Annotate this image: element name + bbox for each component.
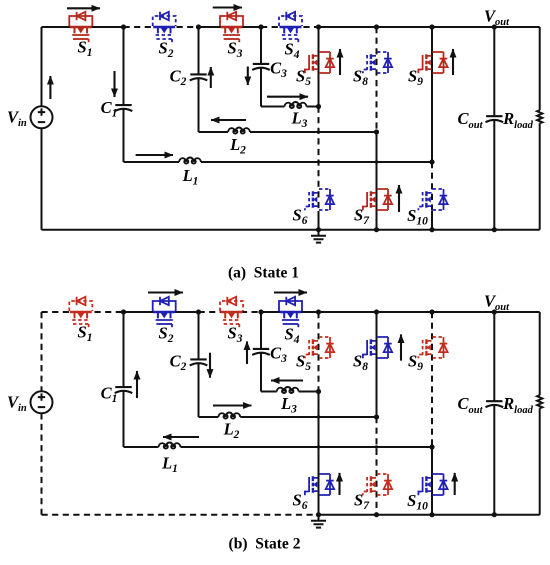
wire S9 rail bbox=[431, 27, 433, 162]
arrow L3 current bbox=[267, 96, 308, 98]
transistor S6 bbox=[305, 474, 334, 495]
svg-text:C1: C1 bbox=[101, 384, 118, 406]
capacitor C2 bbox=[190, 359, 208, 365]
svg-text:S7: S7 bbox=[354, 206, 370, 228]
junction L3-S5 node bbox=[316, 104, 321, 109]
junction dots top rail bbox=[121, 309, 126, 314]
junction L1-S9 node bbox=[429, 444, 434, 449]
junction L2-S7 node bbox=[374, 414, 379, 419]
transistor S6 bbox=[305, 189, 334, 210]
inductor L1 bbox=[179, 158, 201, 164]
wire top rail S2-S3 segment bbox=[199, 311, 262, 313]
arrow S1 current bbox=[67, 7, 100, 9]
svg-text:L2: L2 bbox=[229, 135, 246, 157]
wire S8 rail bbox=[376, 312, 378, 417]
wire Rload rail upper bbox=[539, 312, 541, 395]
arrow S7 current bbox=[398, 185, 400, 212]
transistor S4 bbox=[279, 12, 302, 42]
arrow C1 current bbox=[136, 371, 138, 398]
wire S10 rail bbox=[431, 447, 433, 515]
svg-text:Vout: Vout bbox=[484, 292, 510, 314]
junction dots top rail bbox=[121, 24, 126, 29]
arrow S4 current bbox=[274, 291, 307, 293]
wire C3 branch upper bbox=[260, 27, 262, 64]
svg-text:Rload: Rload bbox=[502, 394, 533, 416]
svg-text:L1: L1 bbox=[182, 166, 199, 188]
svg-text:S3: S3 bbox=[228, 39, 243, 61]
wire L3 branch left bbox=[261, 391, 277, 393]
capacitor Cout bbox=[486, 116, 504, 122]
ground bbox=[311, 230, 326, 243]
arrow S10 current bbox=[454, 473, 456, 495]
svg-text:L3: L3 bbox=[291, 109, 308, 131]
svg-text:S7: S7 bbox=[354, 491, 370, 513]
arrow L1 current bbox=[163, 436, 199, 438]
transistor S2 bbox=[153, 12, 176, 42]
wire top rail through S4 bbox=[261, 311, 319, 313]
junction L3-S5 node bbox=[316, 389, 321, 394]
arrow L3 current bbox=[271, 379, 303, 381]
wire S7 rail bbox=[376, 132, 378, 230]
wire C2 branch lower bbox=[198, 364, 200, 417]
transistor S1 bbox=[69, 297, 92, 327]
wire L1 branch right bbox=[181, 446, 433, 448]
svg-text:S4: S4 bbox=[285, 325, 300, 347]
capacitor Cout bbox=[486, 401, 504, 407]
transistor S1 bbox=[69, 12, 92, 42]
wire S6 rail bbox=[318, 392, 320, 515]
wire C3 branch lower bbox=[260, 353, 262, 391]
wire L3 branch right bbox=[299, 391, 319, 393]
arrow S8 current bbox=[400, 334, 402, 360]
wire C2 branch upper bbox=[198, 312, 200, 359]
arrow input current bbox=[49, 76, 51, 99]
wire top rail left segment bbox=[42, 311, 124, 313]
svg-text:(a) State 1: (a) State 1 bbox=[228, 265, 299, 282]
wire C1 branch upper bbox=[123, 312, 125, 387]
wire C2 branch upper bbox=[198, 27, 200, 74]
capacitor C1 bbox=[115, 387, 133, 393]
wire left rail upper bbox=[41, 312, 43, 391]
capacitor C2 bbox=[190, 74, 208, 80]
arrow C3 current bbox=[247, 67, 249, 86]
svg-text:C2: C2 bbox=[170, 67, 187, 89]
transistor S9 bbox=[418, 337, 447, 358]
wire S6 source stub bbox=[318, 211, 320, 230]
svg-text:Rload: Rload bbox=[502, 109, 533, 131]
wire C1 branch upper bbox=[123, 27, 125, 105]
transistor S8 bbox=[363, 337, 392, 358]
svg-text:S4: S4 bbox=[285, 40, 300, 62]
inductor L3 bbox=[277, 387, 299, 393]
wire S9 rail dead segment bbox=[431, 312, 433, 447]
wire bottom rail bbox=[319, 514, 540, 516]
junction crossing dots bbox=[317, 130, 320, 133]
wire Rload rail upper bbox=[539, 27, 541, 110]
wire Cout rail lower bbox=[493, 120, 495, 229]
svg-text:L2: L2 bbox=[223, 420, 240, 442]
wire S8 rail dead segment bbox=[376, 27, 378, 132]
arrow C3 current bbox=[246, 341, 248, 364]
capacitor C1 bbox=[115, 105, 133, 111]
wire C3 branch upper bbox=[260, 312, 262, 349]
resistor Rload bbox=[537, 110, 542, 123]
wire S5-S6 rail dead segment bbox=[318, 107, 320, 212]
wire left rail lower bbox=[41, 128, 43, 229]
junction L2-S7 node bbox=[374, 129, 379, 134]
wire L1 branch left bbox=[124, 161, 180, 163]
wire left rail upper bbox=[41, 27, 43, 106]
arrow C2 current bbox=[210, 67, 212, 88]
svg-text:C3: C3 bbox=[270, 59, 287, 81]
arrow S6 current bbox=[338, 473, 340, 495]
wire L1 branch left bbox=[124, 446, 159, 448]
svg-text:S1: S1 bbox=[78, 323, 93, 345]
wire S10 rail dead segment bbox=[431, 162, 433, 211]
wire Cout rail upper bbox=[493, 27, 495, 116]
arrow L1 current bbox=[136, 154, 173, 156]
wire Rload rail lower bbox=[539, 408, 541, 515]
arrow S3 current bbox=[213, 6, 242, 8]
wire left rail lower bbox=[41, 413, 43, 514]
svg-text:Vin: Vin bbox=[7, 393, 27, 415]
wire top rail S2-S3 segment bbox=[199, 26, 262, 28]
inductor L2 bbox=[228, 128, 250, 134]
svg-text:C1: C1 bbox=[101, 98, 118, 120]
inductor L1 bbox=[159, 443, 181, 449]
svg-text:C2: C2 bbox=[170, 352, 187, 374]
resistor Rload bbox=[537, 395, 542, 408]
arrow L2 current bbox=[213, 404, 252, 406]
svg-text:Cout: Cout bbox=[457, 394, 483, 416]
wire Rload rail lower bbox=[539, 123, 541, 230]
svg-text:(b) State 2: (b) State 2 bbox=[229, 536, 301, 553]
wire L2 branch left bbox=[199, 416, 219, 418]
transistor S3 bbox=[220, 297, 243, 327]
wire Cout rail lower bbox=[493, 405, 495, 514]
svg-text:S1: S1 bbox=[78, 38, 93, 60]
svg-text:Vin: Vin bbox=[7, 108, 27, 130]
svg-text:Vout: Vout bbox=[484, 7, 510, 29]
transistor S10 bbox=[418, 474, 447, 495]
junction dots bottom rail bbox=[316, 227, 321, 232]
wire L1 branch right bbox=[201, 161, 432, 163]
wire Cout rail upper bbox=[493, 312, 495, 401]
wire C1 branch lower bbox=[123, 391, 125, 447]
transistor S2 bbox=[153, 297, 176, 327]
wire bottom rail dead segment bbox=[42, 514, 319, 516]
source Vin bbox=[31, 391, 53, 413]
arrow C2 current bbox=[209, 353, 211, 378]
wire C2 branch lower bbox=[198, 79, 200, 132]
svg-text:Cout: Cout bbox=[457, 109, 483, 131]
source Vin bbox=[31, 106, 53, 128]
wire top rail through S2 bbox=[124, 26, 199, 28]
svg-text:S3: S3 bbox=[228, 324, 243, 346]
arrow C1 current bbox=[113, 71, 115, 97]
inductor L3 bbox=[285, 102, 307, 108]
transistor S4 bbox=[279, 297, 302, 327]
svg-text:C3: C3 bbox=[270, 344, 287, 366]
wire top rail through S2 bbox=[124, 311, 199, 313]
transistor S7 bbox=[363, 474, 392, 495]
capacitor C3 bbox=[252, 349, 270, 355]
transistor S10 bbox=[418, 189, 447, 210]
wire S5 rail bbox=[318, 27, 320, 107]
wire L2 branch right bbox=[240, 416, 376, 418]
junction L1-S9 node bbox=[429, 159, 434, 164]
wire bottom rail bbox=[42, 229, 540, 231]
arrow S5 current bbox=[339, 49, 341, 75]
wire S7 rail dead segment bbox=[376, 417, 378, 515]
wire top rail right segment bbox=[319, 311, 540, 313]
wire L2 branch right bbox=[250, 131, 377, 133]
wire C3 branch lower bbox=[260, 68, 262, 106]
wire top rail through S4 bbox=[261, 26, 319, 28]
wire top rail left segment bbox=[42, 26, 124, 28]
inductor L2 bbox=[218, 413, 240, 419]
junction dots bottom rail bbox=[316, 512, 321, 517]
wire S10 source stub bbox=[431, 211, 433, 230]
wire L3 branch left bbox=[261, 106, 285, 108]
arrow S2 current bbox=[148, 291, 183, 293]
svg-text:L3: L3 bbox=[280, 394, 297, 416]
arrow L2 current bbox=[211, 119, 246, 121]
transistor S9 bbox=[418, 52, 447, 73]
svg-text:L1: L1 bbox=[161, 454, 178, 476]
transistor S3 bbox=[220, 12, 243, 42]
wire L2 branch left bbox=[199, 131, 229, 133]
junction crossing dots bbox=[317, 415, 320, 418]
capacitor C3 bbox=[252, 64, 270, 70]
transistor S5 bbox=[305, 52, 334, 73]
arrow S9 current bbox=[452, 49, 454, 75]
ground bbox=[311, 515, 326, 528]
wire S5 rail dead segment bbox=[318, 312, 320, 392]
transistor S7 bbox=[363, 189, 392, 210]
wire top rail right segment bbox=[319, 26, 540, 28]
transistor S5 bbox=[305, 337, 334, 358]
transistor S8 bbox=[363, 52, 392, 73]
wire C1 branch lower bbox=[123, 109, 125, 162]
wire L3 branch right bbox=[307, 106, 319, 108]
